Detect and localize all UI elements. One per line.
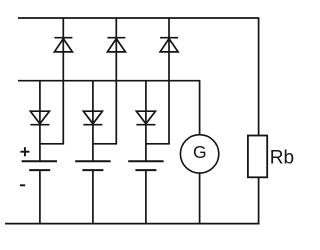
battery B1 plates: [22, 161, 57, 170]
diode D1 (pointing up, cathode bar on top): [54, 38, 72, 52]
wire battery column 1 lower (B1 to bottom bus): [39, 170, 41, 224]
battery B3 plates: [128, 161, 163, 170]
diode D5 (pointing down, cathode bar below): [83, 111, 102, 125]
wire column 2 through diode D2 (top bus down to jog): [115, 18, 117, 144]
battery B2 plates: [75, 161, 110, 170]
label - (negative terminal of B1): [20, 184, 25, 186]
wire jog connector cell 1 (column 1 to battery column): [40, 143, 64, 145]
meter G (galvanometer circle): [180, 135, 218, 173]
svg-text:Rb: Rb: [270, 148, 294, 169]
wire drop from second bus to meter G: [199, 81, 201, 135]
diode D4 (pointing down, cathode bar below): [30, 111, 49, 125]
diode D6 (pointing down, cathode bar below): [136, 111, 155, 125]
wire bottom bus (negative rail): [5, 223, 259, 225]
wire column 1 through diode D1 (top bus down to jog): [62, 18, 64, 144]
diode D2 (pointing up, cathode bar on top): [107, 38, 125, 52]
label + (positive terminal of B1): [20, 147, 29, 156]
wire battery column 3 lower (B3 to bottom bus): [145, 170, 147, 224]
wire column 3 through diode D3 (top bus down to jog): [168, 18, 170, 144]
wire second bus: [18, 80, 200, 82]
wire battery column 2 upper (second bus through diode D5 to battery B2): [92, 81, 94, 161]
wire right vertical from top bus to Rb top: [258, 18, 260, 136]
wire from resistor Rb bottom to bottom bus: [258, 177, 260, 224]
diode D3 (pointing up, cathode bar on top): [160, 38, 178, 52]
wire jog connector cell 2 (column 2 to battery column): [93, 143, 117, 145]
wire battery column 2 lower (B2 to bottom bus): [92, 170, 94, 224]
wire battery column 3 upper (second bus through diode D6 to battery B3): [145, 81, 147, 161]
svg-text:G: G: [193, 142, 207, 162]
wire jog connector cell 3 (column 3 to battery column): [146, 143, 170, 145]
resistor Rb (rectangle body): [248, 136, 267, 178]
wire battery column 1 upper (second bus through diode D4 to battery B1): [39, 81, 41, 161]
wire from meter G bottom to bottom bus: [199, 173, 201, 224]
wire top bus (positive rail): [18, 17, 259, 19]
